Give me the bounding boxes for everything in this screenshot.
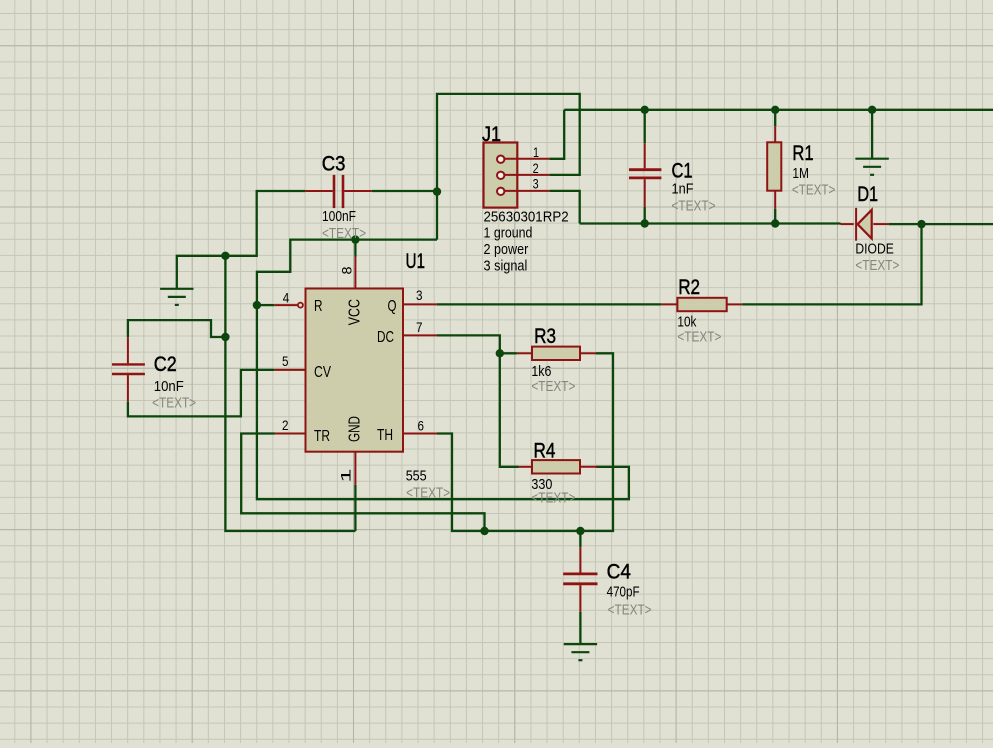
wire: top supply rail: [564, 109, 993, 111]
wire: C2 top to ground trunk: [128, 320, 225, 337]
U1 pin 7 DC: [377, 319, 437, 346]
svg-text:2: 2: [282, 417, 289, 433]
junction C1 bottom: [641, 219, 649, 227]
svg-text:TR: TR: [314, 428, 330, 445]
wire: C3 right to power junction: [372, 190, 437, 192]
svg-text:<TEXT>: <TEXT>: [531, 379, 575, 395]
svg-text:<TEXT>: <TEXT>: [531, 490, 575, 506]
svg-text:C4: C4: [607, 560, 631, 584]
svg-text:C1: C1: [672, 159, 693, 183]
wire: R1 top drop: [774, 110, 776, 126]
svg-text:3 signal: 3 signal: [484, 258, 528, 274]
svg-text:<TEXT>: <TEXT>: [677, 330, 721, 346]
U1 pin 2 TR: [275, 417, 330, 445]
svg-text:2: 2: [533, 160, 539, 176]
svg-text:6: 6: [418, 418, 425, 434]
svg-text:R3: R3: [534, 324, 556, 348]
svg-text:5: 5: [282, 353, 289, 369]
wire: ground vertical trunk: [225, 256, 355, 531]
U1 pin 3 Q: [388, 287, 437, 315]
junction power node: [433, 187, 441, 195]
wire: C1 bottom drop: [644, 207, 646, 224]
wire: rail ground stub: [871, 110, 873, 159]
svg-text:R2: R2: [678, 275, 700, 299]
svg-text:1: 1: [533, 144, 539, 160]
wire: pin8 riser: [354, 240, 356, 257]
svg-text:D1: D1: [857, 182, 878, 206]
junction timing node: [480, 527, 488, 535]
junction DC node: [496, 349, 504, 357]
svg-text:C2: C2: [154, 352, 177, 376]
capacitor C4: [563, 547, 651, 618]
svg-text:1k6: 1k6: [531, 364, 551, 380]
U1 pin 8 VCC: [339, 257, 364, 326]
resistor R1: [767, 126, 835, 209]
U1 pin 5 CV: [274, 353, 331, 381]
svg-text:Q: Q: [388, 298, 397, 315]
capacitor C2: [112, 337, 196, 411]
wire: VCC row to pin8 and reset column: [257, 240, 629, 500]
svg-text:555: 555: [406, 469, 427, 485]
junction gnd tap: [868, 106, 876, 114]
svg-text:<TEXT>: <TEXT>: [672, 199, 716, 215]
svg-text:2 power: 2 power: [484, 242, 529, 258]
svg-text:7: 7: [416, 319, 423, 335]
wire: TR pin2 to timing node: [241, 434, 484, 532]
junction pin8 node: [351, 235, 359, 243]
wire: J1 pin2 to power node (C3 right): [437, 94, 580, 240]
diode D1: [841, 182, 900, 274]
wire: C4 top: [579, 531, 581, 547]
svg-text:25630301RP2: 25630301RP2: [484, 210, 569, 226]
svg-text:CV: CV: [314, 364, 331, 381]
ground left: [160, 289, 193, 305]
svg-text:470pF: 470pF: [607, 585, 640, 601]
svg-text:DC: DC: [377, 329, 394, 346]
junction C4 node: [576, 527, 584, 535]
svg-text:1M: 1M: [792, 166, 809, 182]
wire: pin4 reset branch: [257, 304, 274, 306]
junction C1 top: [641, 106, 649, 114]
svg-text:VCC: VCC: [346, 299, 363, 325]
svg-text:3: 3: [533, 176, 539, 192]
op-amp/timer U1 (555) body: [306, 249, 451, 502]
ground right: [855, 159, 888, 175]
junction reset node: [253, 301, 261, 309]
wire: diode right to edge and down to R2: [742, 224, 993, 304]
junction R1 bottom: [771, 219, 779, 227]
U1 pin 4 R with bubble: [274, 290, 322, 315]
U1 pin 6 TH: [377, 418, 437, 445]
wire: C1 top drop: [644, 110, 646, 144]
svg-text:10k: 10k: [677, 314, 696, 330]
junction diode out: [917, 220, 925, 228]
capacitor C1: [629, 143, 716, 214]
wire: lower signal rail: [580, 222, 841, 224]
wire: R1 bottom drop: [774, 209, 776, 224]
wire: DC pin7 to R3/R4 left column: [437, 335, 519, 466]
resistor R4: [519, 438, 598, 506]
svg-text:1: 1: [338, 468, 354, 482]
wire: R3 left branch: [500, 352, 517, 354]
svg-text:GND: GND: [347, 416, 364, 442]
junction ground row: [221, 252, 229, 260]
svg-text:J1: J1: [482, 122, 501, 146]
svg-text:R: R: [314, 298, 323, 315]
wire: TH pin6 to timing row: [437, 353, 613, 531]
svg-text:<TEXT>: <TEXT>: [792, 183, 835, 199]
svg-text:<TEXT>: <TEXT>: [322, 226, 366, 242]
svg-text:R4: R4: [534, 438, 556, 462]
wire: Q pin3 to R2 left: [437, 303, 661, 305]
svg-text:TH: TH: [377, 427, 393, 444]
svg-text:U1: U1: [406, 249, 426, 273]
svg-text:3: 3: [416, 287, 423, 303]
svg-text:DIODE: DIODE: [855, 242, 893, 258]
wire: 555 pin1 to ground row: [354, 485, 356, 531]
svg-text:8: 8: [339, 266, 355, 274]
junction C2 tap: [221, 333, 229, 341]
svg-text:R1: R1: [792, 141, 813, 165]
svg-text:1 ground: 1 ground: [484, 226, 533, 242]
junction R1 top: [771, 106, 779, 114]
svg-text:<TEXT>: <TEXT>: [608, 603, 652, 619]
capacitor C3: [305, 152, 371, 243]
wire: J1 pin3 to lower rail: [550, 191, 580, 224]
U1 pin 1 GND: [338, 416, 364, 485]
connector J1: [482, 122, 569, 274]
wire: J1 pin1 to top rail: [550, 110, 565, 159]
svg-text:<TEXT>: <TEXT>: [855, 258, 899, 274]
svg-text:<TEXT>: <TEXT>: [152, 396, 196, 412]
svg-text:1nF: 1nF: [672, 182, 694, 198]
svg-text:C3: C3: [322, 152, 346, 176]
wire: C4 bottom to ground: [579, 612, 581, 644]
svg-text:4: 4: [283, 290, 290, 306]
svg-text:10nF: 10nF: [154, 379, 184, 395]
resistor R2: [661, 275, 742, 346]
wire: C2 bottom to CV pin5: [128, 370, 274, 417]
svg-text:<TEXT>: <TEXT>: [406, 486, 450, 502]
svg-text:100nF: 100nF: [322, 209, 356, 225]
resistor R3: [517, 324, 596, 395]
ground under C4: [564, 644, 597, 660]
wire: C3 left to ground row: [177, 191, 305, 289]
